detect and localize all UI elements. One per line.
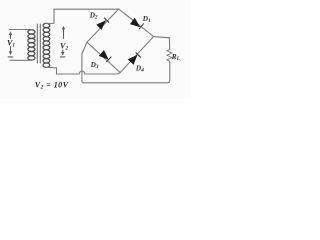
wire secondary top lead to top rail: [46, 9, 118, 23]
wire primary bottom lead: [10, 59, 30, 61]
wire lower dc rail: [82, 62, 170, 83]
svg-text:V2: V2: [60, 41, 68, 51]
transformer core: [37, 24, 40, 63]
wire left corner output diagonal: [82, 42, 87, 81]
diamond edge top-right: [119, 9, 154, 37]
diode D3 bar: [107, 57, 111, 62]
diamond edge bottom-right: [120, 37, 153, 73]
transformer secondary winding: [43, 23, 50, 67]
wire secondary bottom lead: [46, 67, 56, 74]
diode D1 bar: [139, 24, 143, 29]
diode D4 bar: [136, 53, 141, 57]
diode D3 triangle: [99, 50, 109, 60]
diode D1 triangle: [130, 18, 140, 27]
svg-text:D3: D3: [90, 61, 99, 70]
arrow V1 up: [9, 31, 12, 38]
svg-text:RL: RL: [171, 53, 181, 62]
resistor RL zigzag: [167, 49, 172, 62]
arrow V2 down: [60, 50, 65, 57]
diode D2 bar: [104, 18, 109, 22]
wire right corner to RL top: [154, 37, 170, 50]
diamond edge bottom-left: [87, 42, 120, 72]
arrow V2 up: [62, 26, 65, 39]
wire primary top lead: [10, 29, 30, 31]
svg-text:D4: D4: [135, 64, 144, 73]
svg-text:D1: D1: [142, 15, 151, 24]
svg-text:V2 = 10V: V2 = 10V: [35, 80, 69, 90]
svg-text:D2: D2: [89, 12, 98, 21]
transformer primary winding: [28, 30, 35, 60]
svg-text:V1: V1: [7, 38, 15, 48]
diode D2 triangle: [96, 20, 106, 30]
diode D4 triangle: [128, 55, 138, 65]
wire bottom ac rail with hop: [57, 71, 121, 74]
arrow V1 down: [8, 47, 13, 57]
diamond edge top-left: [87, 9, 119, 42]
